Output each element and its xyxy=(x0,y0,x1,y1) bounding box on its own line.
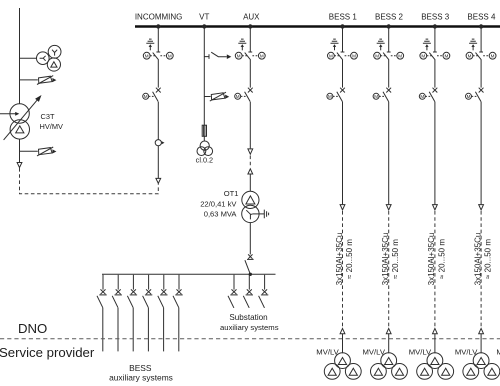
LV feeder 7: substation auxiliary xyxy=(228,275,238,308)
wire: LV feeder 4 tail xyxy=(147,308,149,352)
wire: LV feeder 6 tail xyxy=(178,308,180,352)
wire: BESS 3 cable to transformer xyxy=(434,334,436,353)
boundary: DNO / Service provider dashed separator xyxy=(0,338,500,340)
wire: BESS 1 MV cable dashed xyxy=(342,211,344,328)
busbar: MV switchgear busbar xyxy=(135,25,500,28)
svg-text:INCOMMING: INCOMMING xyxy=(135,12,183,21)
svg-text:BESS: BESS xyxy=(129,363,152,373)
current transformer: VT metering CT xyxy=(210,92,229,101)
circuit breaker: BESS 2 motorized xyxy=(373,88,391,102)
wire: INCOMMING drop xyxy=(157,28,159,178)
transformer: grid 3-winding transformer (Y Y D) xyxy=(37,45,61,71)
wire: branch to MV current transducer xyxy=(20,150,38,152)
svg-text:3x150Al+35Cu: 3x150Al+35Cu xyxy=(381,233,390,286)
transformer C3T HV/MV with on-load tap changer xyxy=(4,95,42,140)
svg-text:≈ 20...50 m: ≈ 20...50 m xyxy=(484,239,493,279)
fuse: VT primary fuse xyxy=(202,125,206,136)
LV feeder 8: substation auxiliary xyxy=(243,275,253,308)
cable terminal arrow: BESS 4 cable lower end xyxy=(479,328,484,333)
svg-text:MV/LV: MV/LV xyxy=(316,347,339,356)
current transformer: MV side CT xyxy=(37,147,56,156)
wire: AUX drop xyxy=(249,28,251,149)
wire: dashed AUX cable xyxy=(249,156,251,168)
cable terminal arrow: AUX cable upper end xyxy=(248,149,253,154)
LV feeder 1: BESS auxiliary xyxy=(97,275,107,308)
junction: INCOMMING tap xyxy=(156,24,160,28)
wire: HV overhead line bus (left) xyxy=(19,8,21,104)
disconnector: BESS 2 motorized 3-position xyxy=(374,52,404,60)
current transformer: INCOMMING ring CT xyxy=(155,140,164,146)
circuit breaker: LV main incomer xyxy=(245,254,254,274)
cable terminal arrow: BESS 2 cable lower end xyxy=(386,328,391,333)
svg-text:BESS 2: BESS 2 xyxy=(375,12,404,21)
ground: BESS 3 earthing switch target xyxy=(423,39,431,50)
wire: LV feeder 1 tail xyxy=(102,308,104,352)
svg-text:BESS 4: BESS 4 xyxy=(467,12,496,21)
svg-text:BESS 3: BESS 3 xyxy=(421,12,450,21)
wire: LV feeder 8 stub xyxy=(248,307,250,309)
wire: branch to grid three-winding transformer xyxy=(20,57,37,59)
wire: LV feeder 9 stub xyxy=(263,307,265,309)
wire: BESS 1 drop xyxy=(342,28,344,205)
svg-text:OT1: OT1 xyxy=(224,189,239,198)
ground: INCOMMING earthing switch target xyxy=(146,39,154,50)
wire: BESS 2 drop xyxy=(388,28,390,205)
svg-text:3x150Al+35Cu: 3x150Al+35Cu xyxy=(335,233,344,286)
cable terminal arrow: C3T to cable xyxy=(17,163,22,168)
wire: BESS 3 MV cable dashed xyxy=(434,211,436,328)
wire: BESS 4 cable to transformer xyxy=(480,334,482,353)
wire: LV feeder 5 tail xyxy=(163,308,165,352)
junction: BESS 4 tap xyxy=(479,24,483,28)
disconnector: AUX motorized 3-position xyxy=(235,52,265,60)
junction: BESS 1 tap xyxy=(340,24,344,28)
circuit breaker: BESS 3 motorized xyxy=(419,88,437,102)
LV feeder 2: BESS auxiliary xyxy=(112,275,122,308)
junction: VT tap xyxy=(202,24,206,28)
junction: BESS 2 tap xyxy=(387,24,391,28)
wire: BESS 4 drop xyxy=(480,28,482,205)
junction: AUX tap xyxy=(248,24,252,28)
ground: BESS 2 earthing switch target xyxy=(377,39,385,50)
LV feeder 5: BESS auxiliary xyxy=(158,275,168,308)
circuit breaker: AUX motorized xyxy=(235,88,253,102)
cable terminal arrow: INCOMMING to transformer cable xyxy=(156,178,161,183)
transformer: BESS 3 MV/LV three-winding xyxy=(417,353,454,380)
transformer: BESS 4 MV/LV three-winding xyxy=(463,353,500,380)
wire: VT drop xyxy=(203,28,205,141)
cable terminal arrow: BESS 2 cable upper end xyxy=(386,205,391,210)
wire: LV feeder 3 tail xyxy=(132,308,134,352)
svg-text:VT: VT xyxy=(199,12,209,21)
wire: VT CT stub xyxy=(204,96,210,98)
junction: LV incomer xyxy=(249,273,252,276)
svg-text:3x150Al+35Cu: 3x150Al+35Cu xyxy=(427,233,436,286)
svg-text:≈ 20...50 m: ≈ 20...50 m xyxy=(345,239,354,279)
ground: BESS 4 earthing switch target xyxy=(469,39,477,50)
circuit breaker: BESS 1 motorized xyxy=(327,88,345,102)
wire: HV infeed stub into C3T xyxy=(0,113,16,115)
svg-text:auxiliary systems: auxiliary systems xyxy=(109,373,173,383)
svg-text:MV/LV: MV/LV xyxy=(363,347,386,356)
svg-text:≈ 20...50 m: ≈ 20...50 m xyxy=(437,239,446,279)
ground: OT1 neutral earthing xyxy=(252,210,268,219)
cable terminal arrow: BESS 1 cable upper end xyxy=(340,205,345,210)
wire: BESS 2 MV cable dashed xyxy=(388,211,390,328)
disconnector: BESS 1 motorized 3-position xyxy=(328,52,358,60)
circuit breaker: BESS 4 motorized xyxy=(466,88,484,102)
voltage transformer: 3-phase VT xyxy=(197,141,213,156)
transformer: BESS 2 MV/LV three-winding xyxy=(371,353,408,380)
LV feeder 9: substation auxiliary xyxy=(259,275,269,308)
wire: branch to HV current transducer xyxy=(20,79,38,81)
cable terminal arrow: BESS 3 cable lower end xyxy=(433,328,438,333)
junction: BESS 3 tap xyxy=(433,24,437,28)
svg-text:Substation: Substation xyxy=(229,313,267,322)
svg-text:cl.0.2: cl.0.2 xyxy=(196,156,213,165)
svg-text:0,63 MVA: 0,63 MVA xyxy=(204,209,238,218)
busbar: LV auxiliary board xyxy=(102,273,276,275)
ground: AUX earthing switch target xyxy=(238,39,246,50)
earthing switch: VT branch xyxy=(204,52,231,59)
svg-text:MV/LV: MV/LV xyxy=(455,347,478,356)
LV feeder 3: BESS auxiliary xyxy=(127,275,137,308)
disconnector: BESS 3 motorized 3-position xyxy=(420,52,450,60)
wire: LV feeder 7 stub xyxy=(233,307,235,309)
svg-text:BESS 1: BESS 1 xyxy=(329,12,358,21)
transformer OT1 22/0,41 kV 0,63 MVA xyxy=(242,191,259,222)
wire: C3T MV output xyxy=(19,139,21,162)
wire: BESS 3 drop xyxy=(434,28,436,205)
svg-text:3x150Al+35Cu: 3x150Al+35Cu xyxy=(473,233,482,286)
wire: LV feeder 2 tail xyxy=(117,308,119,352)
disconnector: INCOMMING motorized 3-position xyxy=(143,52,173,60)
wire: BESS 2 cable to transformer xyxy=(388,334,390,353)
wire: BESS 1 cable to transformer xyxy=(342,334,344,353)
circuit breaker: INCOMMING motorized xyxy=(143,88,161,102)
svg-text:≈ 20...50 m: ≈ 20...50 m xyxy=(391,239,400,279)
cable terminal arrow: BESS 3 cable upper end xyxy=(433,205,438,210)
svg-text:C3T: C3T xyxy=(41,112,55,121)
wire: BESS 4 MV cable dashed xyxy=(480,211,482,328)
svg-text:DNO: DNO xyxy=(18,321,47,336)
cable terminal arrow: BESS 1 cable lower end xyxy=(340,328,345,333)
svg-text:AUX: AUX xyxy=(243,12,260,21)
LV feeder 4: BESS auxiliary xyxy=(143,275,153,308)
svg-text:auxiliary systems: auxiliary systems xyxy=(220,323,279,332)
svg-text:MV/LV: MV/LV xyxy=(496,347,500,356)
LV feeder 6: BESS auxiliary xyxy=(173,275,183,308)
cable terminal arrow: AUX cable lower end xyxy=(248,169,253,174)
disconnector: BESS 4 motorized 3-position xyxy=(466,52,496,60)
svg-text:22/0,41 kV: 22/0,41 kV xyxy=(200,200,237,209)
ground: BESS 1 earthing switch target xyxy=(331,39,339,50)
svg-text:Service provider: Service provider xyxy=(0,345,95,360)
current transformer: HV side CT xyxy=(37,76,56,85)
transformer: BESS 1 MV/LV three-winding xyxy=(324,353,361,380)
cable terminal arrow: BESS 4 cable upper end xyxy=(479,205,484,210)
svg-text:MV/LV: MV/LV xyxy=(409,347,432,356)
wire: cable to OT1 xyxy=(249,174,251,191)
wire: OT1 LV lead xyxy=(249,223,251,255)
svg-text:HV/MV: HV/MV xyxy=(40,122,63,131)
wire: dashed MV cable from C3T to INCOMMING panel xyxy=(20,168,159,194)
